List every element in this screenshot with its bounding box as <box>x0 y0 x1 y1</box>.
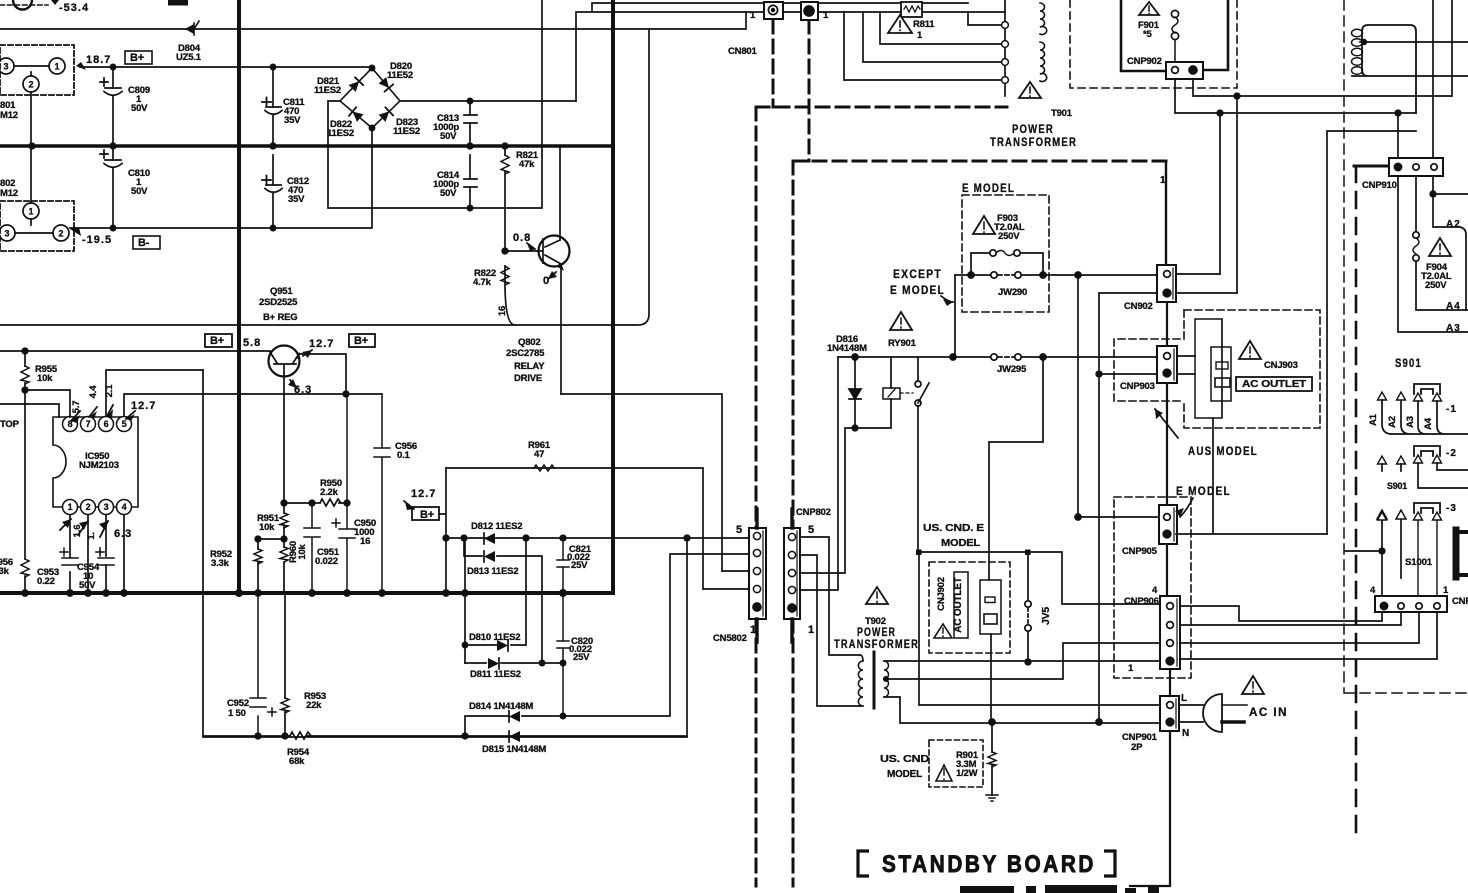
svg-text:S1001: S1001 <box>1405 557 1433 568</box>
svg-text:12.7: 12.7 <box>309 338 334 350</box>
svg-text:D815 1N4148M: D815 1N4148M <box>482 744 546 755</box>
svg-text:11ES2: 11ES2 <box>327 128 354 139</box>
svg-text:Q802: Q802 <box>518 337 540 348</box>
svg-text:CNJ902: CNJ902 <box>936 577 947 611</box>
svg-text:-1: -1 <box>1446 404 1457 415</box>
svg-text:1: 1 <box>54 62 59 72</box>
svg-text:0.8: 0.8 <box>513 232 531 244</box>
svg-text:0: 0 <box>543 275 550 287</box>
svg-text:RELAY: RELAY <box>514 361 545 372</box>
svg-text:10k: 10k <box>297 543 308 559</box>
svg-text:MODEL: MODEL <box>887 768 923 780</box>
svg-text:16: 16 <box>497 306 508 316</box>
svg-text:AC OUTLET: AC OUTLET <box>1242 379 1306 390</box>
svg-text:1/2W: 1/2W <box>956 768 978 779</box>
svg-text:25V: 25V <box>573 652 590 663</box>
svg-text:6: 6 <box>104 419 109 429</box>
svg-text:CN801: CN801 <box>728 46 757 57</box>
svg-text:4.7k: 4.7k <box>473 277 492 288</box>
svg-text:B+: B+ <box>420 509 434 521</box>
svg-text:1: 1 <box>1160 175 1167 186</box>
svg-text:NJM2103: NJM2103 <box>79 460 119 471</box>
svg-text:2: 2 <box>86 502 91 512</box>
svg-text:TRANSFORMER: TRANSFORMER <box>834 637 919 651</box>
svg-text:A4: A4 <box>1446 301 1461 312</box>
svg-text:11E52: 11E52 <box>387 70 413 81</box>
svg-text:CNP910: CNP910 <box>1362 180 1397 191</box>
svg-text:CNP902: CNP902 <box>1127 56 1162 67</box>
svg-text:CNP906: CNP906 <box>1124 596 1159 607</box>
svg-text:AUS MODEL: AUS MODEL <box>1188 444 1258 458</box>
svg-text:A1: A1 <box>1368 413 1379 426</box>
svg-text:250V: 250V <box>1425 280 1447 291</box>
svg-text:R811: R811 <box>913 19 935 30</box>
svg-text:5.7: 5.7 <box>71 401 82 414</box>
svg-text:A2: A2 <box>1446 219 1461 230</box>
svg-text:5: 5 <box>808 524 815 536</box>
svg-text:S901: S901 <box>1387 481 1408 492</box>
svg-text:18.7: 18.7 <box>86 54 111 66</box>
svg-text:4.4: 4.4 <box>88 385 99 399</box>
svg-text:1.6: 1.6 <box>72 525 83 538</box>
svg-text:2P: 2P <box>1131 742 1143 753</box>
svg-text:0.1: 0.1 <box>397 450 411 461</box>
svg-text:CNP802: CNP802 <box>796 507 831 518</box>
svg-text:US. CND: US. CND <box>880 753 930 765</box>
svg-text:D812 11ES2: D812 11ES2 <box>471 521 522 532</box>
svg-text:1: 1 <box>1443 585 1449 596</box>
svg-text:RY901: RY901 <box>888 338 917 349</box>
svg-text:10k: 10k <box>37 373 53 384</box>
svg-text:-2: -2 <box>1446 448 1457 459</box>
svg-text:50V: 50V <box>131 186 148 197</box>
svg-text:4: 4 <box>1152 585 1158 596</box>
svg-text:TRANSFORMER: TRANSFORMER <box>990 135 1077 149</box>
svg-text:D813 11ES2: D813 11ES2 <box>467 566 518 577</box>
svg-text:D811 11ES2: D811 11ES2 <box>470 669 521 680</box>
svg-text:50V: 50V <box>440 188 457 199</box>
svg-text:5.8: 5.8 <box>243 337 261 349</box>
svg-text:35V: 35V <box>284 115 301 126</box>
svg-text:2.2k: 2.2k <box>320 487 339 498</box>
svg-text:-3: -3 <box>1446 503 1457 514</box>
svg-text:1: 1 <box>750 10 756 21</box>
svg-text:35V: 35V <box>288 194 305 205</box>
svg-text:B+ REG: B+ REG <box>263 312 297 323</box>
svg-text:B+: B+ <box>354 335 368 347</box>
svg-text:S901: S901 <box>1395 356 1422 370</box>
svg-text:2: 2 <box>58 229 63 239</box>
svg-text:22k: 22k <box>306 700 322 711</box>
svg-text:1: 1 <box>808 624 815 636</box>
svg-text:EXCEPT: EXCEPT <box>893 267 942 281</box>
svg-text:10k: 10k <box>259 522 275 533</box>
svg-text:Q951: Q951 <box>270 286 293 297</box>
svg-text:2: 2 <box>28 80 33 90</box>
svg-text:7: 7 <box>86 419 91 429</box>
svg-text:CNP905: CNP905 <box>1122 546 1158 557</box>
svg-text:A2: A2 <box>1387 416 1398 428</box>
svg-text:3: 3 <box>4 229 9 239</box>
svg-text:TOP: TOP <box>0 419 20 430</box>
svg-text:12.7: 12.7 <box>131 400 156 412</box>
svg-text:68k: 68k <box>289 756 305 767</box>
svg-text:T901: T901 <box>1051 108 1073 119</box>
svg-text:D814 1N4148M: D814 1N4148M <box>469 701 533 712</box>
svg-text:50V: 50V <box>79 580 96 591</box>
svg-text:D810 11ES2: D810 11ES2 <box>469 632 520 643</box>
svg-text:1.: 1. <box>86 532 97 540</box>
svg-text:4: 4 <box>122 502 127 512</box>
svg-text:A4: A4 <box>1423 417 1434 430</box>
svg-text:1: 1 <box>68 502 73 512</box>
svg-text:A3: A3 <box>1446 323 1461 334</box>
svg-text:3: 3 <box>3 62 8 72</box>
svg-text:CNP903: CNP903 <box>1120 381 1155 392</box>
svg-text:JW290: JW290 <box>998 287 1027 298</box>
svg-text:12.7: 12.7 <box>411 488 436 500</box>
svg-text:4: 4 <box>1370 585 1376 596</box>
svg-text:L: L <box>1181 693 1188 704</box>
svg-text:US. CND. E: US. CND. E <box>923 522 984 534</box>
svg-text:47k: 47k <box>519 159 535 170</box>
svg-text:N: N <box>1182 728 1190 739</box>
svg-text:M12: M12 <box>0 110 18 121</box>
svg-text:1: 1 <box>28 207 33 217</box>
svg-text:16: 16 <box>360 536 370 547</box>
svg-text:5: 5 <box>736 524 743 536</box>
svg-text:0.22: 0.22 <box>37 576 55 587</box>
svg-text:B+: B+ <box>130 52 144 64</box>
svg-text:UZ5.1: UZ5.1 <box>176 52 202 63</box>
svg-text:8: 8 <box>68 419 73 429</box>
svg-text:11ES2: 11ES2 <box>393 126 420 137</box>
svg-text:E MODEL: E MODEL <box>890 283 945 297</box>
svg-text:250V: 250V <box>998 231 1020 242</box>
svg-text:2SC2785: 2SC2785 <box>506 348 545 359</box>
svg-text:CN5802: CN5802 <box>713 633 747 644</box>
svg-text:E MODEL: E MODEL <box>962 181 1015 195</box>
svg-text:50V: 50V <box>131 103 148 114</box>
svg-text:AC IN: AC IN <box>1249 705 1288 719</box>
svg-text:6.3: 6.3 <box>114 528 132 540</box>
svg-text:B-: B- <box>138 237 150 249</box>
svg-text:1: 1 <box>823 10 829 21</box>
svg-text:11ES2: 11ES2 <box>314 85 341 96</box>
svg-text:JV5: JV5 <box>1040 607 1052 625</box>
svg-text:A3: A3 <box>1405 416 1416 428</box>
svg-text:47: 47 <box>534 449 544 460</box>
svg-text:CNJ903: CNJ903 <box>1264 360 1298 371</box>
svg-text:-53.4: -53.4 <box>59 2 89 14</box>
svg-text:CN902: CN902 <box>1124 301 1153 312</box>
svg-text:E MODEL: E MODEL <box>1176 484 1231 498</box>
svg-text:DRIVE: DRIVE <box>514 373 542 384</box>
svg-text:3: 3 <box>104 502 109 512</box>
svg-text:MODEL: MODEL <box>941 537 981 549</box>
svg-text:-19.5: -19.5 <box>82 234 112 246</box>
svg-text:2SD2525: 2SD2525 <box>259 297 298 308</box>
svg-text:1: 1 <box>1128 663 1134 674</box>
svg-text:5: 5 <box>122 419 127 429</box>
svg-text:STANDBY BOARD: STANDBY BOARD <box>882 851 1096 878</box>
svg-text:JW295: JW295 <box>997 364 1027 375</box>
svg-text:2.1: 2.1 <box>104 384 115 398</box>
svg-text:1 50: 1 50 <box>228 708 246 719</box>
svg-text:POWER: POWER <box>1012 122 1054 136</box>
svg-text:1N4148M: 1N4148M <box>827 343 867 354</box>
svg-text:0.022: 0.022 <box>315 556 338 567</box>
svg-text:CNP: CNP <box>1452 596 1468 607</box>
svg-text:3.3k: 3.3k <box>211 558 230 569</box>
svg-text:B+: B+ <box>210 335 224 347</box>
svg-text:AC OUTLET: AC OUTLET <box>953 577 964 633</box>
svg-text:3.3k: 3.3k <box>0 566 10 577</box>
svg-text:*5: *5 <box>1143 29 1152 40</box>
svg-text:6.3: 6.3 <box>294 384 312 396</box>
svg-text:M12: M12 <box>0 188 18 199</box>
svg-text:1: 1 <box>750 624 757 636</box>
svg-text:50V: 50V <box>440 131 457 142</box>
svg-text:25V: 25V <box>571 560 588 571</box>
